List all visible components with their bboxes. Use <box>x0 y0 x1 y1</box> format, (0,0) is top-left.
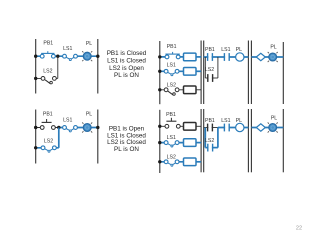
fig4 wire input row2 <box>160 142 201 144</box>
svg-text:LS1: LS1 <box>167 135 176 141</box>
fig2 wire rail to PB1 (dead) <box>36 127 59 129</box>
fig4 wire rung energized <box>218 127 249 129</box>
fig2 wire LS2 branch energized <box>36 128 59 148</box>
fig3 output power rail <box>282 42 284 104</box>
fig3 PLC left boundary rails <box>201 41 204 105</box>
svg-text:LS1: LS1 <box>221 118 230 124</box>
fig2 left power rail <box>35 110 37 164</box>
svg-text:PL: PL <box>86 112 92 118</box>
svg-text:PB1: PB1 <box>167 44 177 50</box>
fig4 wire rung dead segment <box>204 127 218 129</box>
svg-text:PB1 is Closed: PB1 is Closed <box>107 50 147 57</box>
text block state bottom <box>107 126 146 153</box>
fig3 node row2 rail junction <box>158 70 161 73</box>
fig3 wire output <box>251 56 283 58</box>
fig3 input module LS1 (on) <box>184 68 197 76</box>
fig3 output module diamond <box>256 53 265 60</box>
fig1 label LS1 <box>63 46 72 52</box>
fig2 label LS1 <box>63 118 72 124</box>
fig4 contact PB1 (open) <box>208 124 213 132</box>
fig3 label PB1 input <box>167 44 177 50</box>
fig1 wire LS2 branch <box>36 56 58 78</box>
fig2 limit switch LS2 (closed) <box>41 146 56 152</box>
fig3 wire ladder rung <box>204 56 249 58</box>
svg-text:LS2 is Open: LS2 is Open <box>109 65 144 72</box>
fig1 node LS2 branch rail junction <box>34 77 37 80</box>
svg-text:PB1: PB1 <box>43 41 53 47</box>
fig1 limit switch LS1 (closed) <box>63 54 78 60</box>
svg-text:LS2: LS2 <box>205 138 214 144</box>
fig1 pilot light PL (on) <box>82 51 92 61</box>
fig2 pushbutton PB1 (open) <box>40 119 55 129</box>
svg-text:PB1: PB1 <box>205 47 215 53</box>
fig2 wire rung energized <box>59 127 98 129</box>
fig1 label PB1 <box>43 41 53 47</box>
fig2 node branch junction B <box>57 126 60 129</box>
fig4 PLC right boundary rails <box>248 109 251 172</box>
fig3 label PL output <box>270 45 276 51</box>
fig4 limit switch LS1 input (closed) <box>164 141 179 147</box>
svg-text:LS2: LS2 <box>167 154 176 160</box>
fig3 input power rail <box>159 41 161 104</box>
svg-text:LS1: LS1 <box>167 62 176 68</box>
fig3 wire LS2 parallel branch <box>205 57 218 78</box>
fig4 input power rail <box>159 110 161 173</box>
svg-text:LS1 is Closed: LS1 is Closed <box>107 57 146 64</box>
fig4 output module diamond <box>256 124 265 131</box>
svg-text:PB1: PB1 <box>205 118 215 124</box>
fig4 input module PB1 (off) <box>184 123 197 131</box>
svg-text:LS1: LS1 <box>63 46 72 52</box>
fig3 pilot light PL output (on) <box>268 52 278 62</box>
fig4 label PL coil <box>236 118 242 124</box>
fig2 node right rail junction <box>96 126 99 129</box>
fig3 label LS1 input <box>167 62 176 68</box>
fig4 input module LS1 (on) <box>184 139 197 147</box>
fig2 pilot light PL (on) <box>82 122 92 132</box>
fig3 wire input row2 <box>160 70 201 72</box>
fig4 node row3 rail junction <box>158 160 161 163</box>
fig3 wire input row1 <box>160 56 201 58</box>
fig4 contact LS1 (closed) <box>224 124 229 132</box>
svg-text:22: 22 <box>296 226 302 232</box>
fig3 label LS2 contact <box>205 67 214 73</box>
fig3 wire input row3 <box>160 89 201 91</box>
svg-text:PL: PL <box>236 47 242 53</box>
fig2 label LS2 <box>44 139 53 145</box>
fig3 pushbutton PB1 input (closed) <box>165 52 180 59</box>
fig1 wire rung L1 <box>36 55 98 57</box>
fig4 coil PL <box>236 123 244 131</box>
fig4 label LS1 contact <box>221 118 230 124</box>
fig2 limit switch LS1 (closed) <box>63 126 78 132</box>
fig4 label PB1 contact <box>205 118 215 124</box>
fig3 coil PL <box>236 53 244 61</box>
fig3 label PL coil <box>236 47 242 53</box>
fig1 right power rail <box>97 39 99 94</box>
fig3 contact LS2 (open) <box>208 74 213 82</box>
fig2 label PL <box>86 112 92 118</box>
svg-text:PB1: PB1 <box>166 112 176 118</box>
fig2 node left rail junction <box>34 126 37 129</box>
fig4 label PL output <box>271 115 277 121</box>
fig4 label LS2 contact <box>205 138 214 144</box>
fig3 contact LS1 (closed) <box>224 53 229 61</box>
fig3 limit switch LS1 input (closed) <box>164 69 179 75</box>
svg-text:PL is ON: PL is ON <box>114 72 139 79</box>
fig1 limit switch LS2 (open) <box>41 77 56 84</box>
fig3 contact PB1 (closed) <box>208 53 213 61</box>
fig1 node branch junction B <box>56 55 59 58</box>
svg-text:LS2: LS2 <box>167 83 176 89</box>
fig3 label LS1 contact <box>221 47 230 53</box>
fig1 label PL <box>86 41 92 47</box>
fig3 label PB1 contact <box>205 47 215 53</box>
fig2 label PB1 <box>43 112 53 118</box>
fig3 input module PB1 (on) <box>184 53 197 61</box>
fig3 node row3 rail junction <box>158 88 161 91</box>
text block state top <box>107 50 147 79</box>
svg-text:LS2: LS2 <box>43 68 52 74</box>
fig4 node row2 rail junction <box>158 141 161 144</box>
fig4 PLC left boundary rails <box>201 109 204 172</box>
svg-text:PL: PL <box>86 41 92 47</box>
fig4 contact LS2 (closed) <box>208 144 213 152</box>
fig3 PLC right boundary rails <box>248 41 251 105</box>
fig3 limit switch LS2 input (open) <box>164 88 179 95</box>
svg-text:LS2: LS2 <box>44 139 53 145</box>
svg-text:LS2: LS2 <box>205 67 214 73</box>
fig3 label LS2 input <box>167 83 176 89</box>
fig4 input module LS2 (on) <box>184 158 197 166</box>
fig3 input module LS2 (off) <box>184 86 197 94</box>
fig2 right power rail <box>97 110 99 164</box>
fig4 limit switch LS2 input (closed) <box>164 160 179 166</box>
fig4 label LS1 input <box>167 135 176 141</box>
fig4 label LS2 input <box>167 154 176 160</box>
fig1 left power rail <box>35 39 37 94</box>
page number 22 <box>296 226 302 232</box>
fig4 label PB1 input <box>166 112 176 118</box>
fig1 node left rail junction <box>34 55 37 58</box>
fig4 pilot light PL output (on) <box>268 122 278 132</box>
fig4 output power rail <box>282 109 284 172</box>
svg-text:PL: PL <box>271 115 277 121</box>
fig4 wire input row3 <box>160 161 201 163</box>
fig4 wire output <box>251 127 283 129</box>
svg-text:PL: PL <box>236 118 242 124</box>
fig4 wire LS2 parallel branch energized <box>205 128 218 148</box>
fig2 node LS2 branch rail junction <box>34 146 37 149</box>
fig1 label LS2 <box>43 68 52 74</box>
fig4 wire input row1 <box>160 125 201 127</box>
fig4 pushbutton PB1 input (open) <box>165 118 180 128</box>
svg-text:LS1: LS1 <box>221 47 230 53</box>
fig1 pushbutton PB1 (closed) <box>40 51 55 58</box>
svg-text:PB1: PB1 <box>43 112 53 118</box>
fig3 node row1 rail junction <box>158 55 161 58</box>
svg-text:PL is ON: PL is ON <box>114 146 139 153</box>
svg-text:LS1: LS1 <box>63 118 72 124</box>
svg-text:PL: PL <box>270 45 276 51</box>
fig1 node right rail junction <box>96 55 99 58</box>
fig4 node row1 rail junction <box>158 125 161 128</box>
